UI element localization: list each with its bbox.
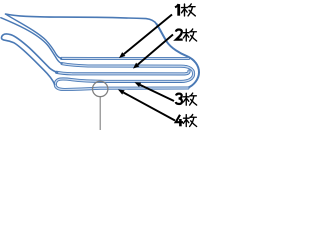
- towel top edge, right steep edge, outer right fold: [6, 14, 157, 24]
- diagonal: L1 left knee up to apex: [6, 14, 62, 58]
- arrow 2: [133, 35, 173, 69]
- label 1枚: [175, 4, 195, 16]
- diagonal: L2 left knee up to image left edge: [1, 18, 62, 64]
- band: L3 with small right hook: [57, 71, 190, 74]
- vertical gray line: [99, 97, 101, 130]
- band: L2 -> right stadium fold -> L4 -> left hairpin fold -> L5: [55, 64, 193, 90]
- gray circle callout: [93, 81, 108, 96]
- arrow 1: [119, 15, 172, 59]
- label 2枚: [176, 29, 197, 41]
- band: L1: [62, 57, 189, 60]
- left U-fold tube (back end of lower hairpin fold): [1, 34, 57, 85]
- label 3枚: [176, 93, 197, 105]
- arrow 4: [118, 90, 175, 121]
- label 4枚: [176, 115, 197, 127]
- right steep edge + outer fold curve: [157, 24, 200, 88]
- arrow 3: [135, 82, 175, 101]
